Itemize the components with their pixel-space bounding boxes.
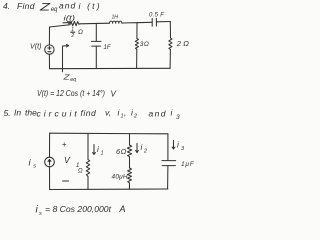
left edge upper circuit 5	[49, 133, 51, 157]
title problem 5	[4, 108, 181, 122]
svg-text:i: i	[97, 145, 99, 154]
svg-text:i: i	[171, 108, 174, 118]
capacitor 1F branch	[92, 23, 111, 68]
svg-text:Z: Z	[62, 73, 70, 82]
svg-text:i: i	[141, 143, 143, 152]
svg-text:V(t): V(t)	[30, 44, 42, 51]
svg-text:1μF: 1μF	[181, 161, 195, 168]
svg-text:Ω: Ω	[78, 169, 83, 175]
left edge lower circuit 5	[49, 167, 51, 190]
bottom wire	[50, 67, 171, 69]
wire top-right	[156, 21, 170, 23]
capacitor 1uF	[162, 161, 195, 168]
current i3 arrow	[172, 141, 185, 153]
svg-text:3: 3	[181, 146, 185, 152]
svg-text:V: V	[111, 90, 117, 99]
svg-text:2: 2	[70, 33, 74, 39]
left edge upper wire	[48, 27, 50, 45]
svg-text:i: i	[177, 141, 179, 150]
capacitor 0.5F	[149, 12, 164, 26]
right edge lower circuit 5	[167, 166, 169, 189]
svg-text:6Ω: 6Ω	[116, 147, 127, 156]
svg-text:v,: v,	[105, 108, 111, 118]
svg-text:eq: eq	[51, 7, 58, 13]
svg-text:1: 1	[101, 151, 104, 157]
resistor 3 ohm branch	[135, 23, 149, 69]
right edge upper circuit 5	[167, 134, 169, 161]
title problem 4	[3, 1, 102, 14]
wire top middle	[80, 22, 110, 25]
equation V(t)	[37, 88, 117, 99]
svg-text:0.5 F: 0.5 F	[149, 12, 164, 18]
top wire circuit 5	[50, 132, 168, 135]
right edge upper wire	[169, 22, 171, 39]
svg-text:5.: 5.	[4, 108, 11, 118]
svg-text:and: and	[149, 109, 167, 119]
left edge lower wire	[48, 54, 50, 68]
svg-text:4.: 4.	[3, 1, 10, 11]
svg-text:s: s	[33, 164, 36, 170]
Zeq arrow	[62, 44, 76, 83]
svg-text:A: A	[119, 204, 126, 214]
svg-text:the: the	[25, 108, 37, 118]
svg-text:i (t): i (t)	[79, 1, 102, 11]
svg-text:+: +	[62, 140, 67, 149]
svg-text:In: In	[14, 108, 21, 118]
node voltage labels + V -	[62, 140, 71, 181]
svg-text:= 8 Cos 200,000t: = 8 Cos 200,000t	[45, 204, 112, 214]
svg-text:,: ,	[124, 108, 126, 118]
inductor 1H	[110, 15, 122, 24]
svg-text:3Ω: 3Ω	[140, 41, 150, 48]
equation is	[36, 204, 126, 217]
current source is	[29, 157, 55, 169]
svg-text:1F: 1F	[104, 45, 111, 51]
wire between 6ohm and 40uH	[129, 157, 131, 168]
svg-text:40μH: 40μH	[112, 174, 128, 181]
svg-text:find: find	[81, 108, 97, 118]
resistor 1 ohm branch	[76, 133, 90, 189]
svg-text:s: s	[39, 211, 42, 217]
current i2 arrow	[136, 143, 147, 155]
svg-text:2Ω: 2Ω	[176, 39, 191, 48]
svg-text:eq: eq	[70, 77, 76, 83]
resistor 2 ohm	[169, 38, 191, 49]
svg-text:and: and	[59, 1, 76, 11]
svg-text:2: 2	[143, 149, 147, 155]
bottom wire circuit 5	[50, 188, 168, 191]
label i(t) with arrow	[63, 16, 75, 24]
svg-text:V: V	[64, 155, 71, 165]
wire top-left	[50, 25, 69, 27]
resistor 6 ohm	[116, 134, 132, 157]
svg-text:i: i	[29, 158, 32, 169]
current i1 arrow	[93, 145, 104, 157]
voltage source V(t)	[30, 44, 54, 55]
resistor 1/2 ohm	[69, 21, 84, 38]
svg-text:1H: 1H	[112, 15, 119, 21]
svg-text:3: 3	[176, 114, 180, 121]
inductor 40uH	[112, 168, 132, 189]
wire to junction node	[122, 21, 152, 24]
svg-text:2: 2	[133, 114, 137, 120]
svg-text:Find: Find	[17, 1, 35, 11]
svg-text:Ω: Ω	[78, 29, 83, 36]
right edge lower wire	[169, 49, 171, 68]
svg-text:circuit: circuit	[37, 109, 80, 119]
svg-text:V(t) = 12 Cos (t + 14°): V(t) = 12 Cos (t + 14°)	[37, 88, 105, 98]
